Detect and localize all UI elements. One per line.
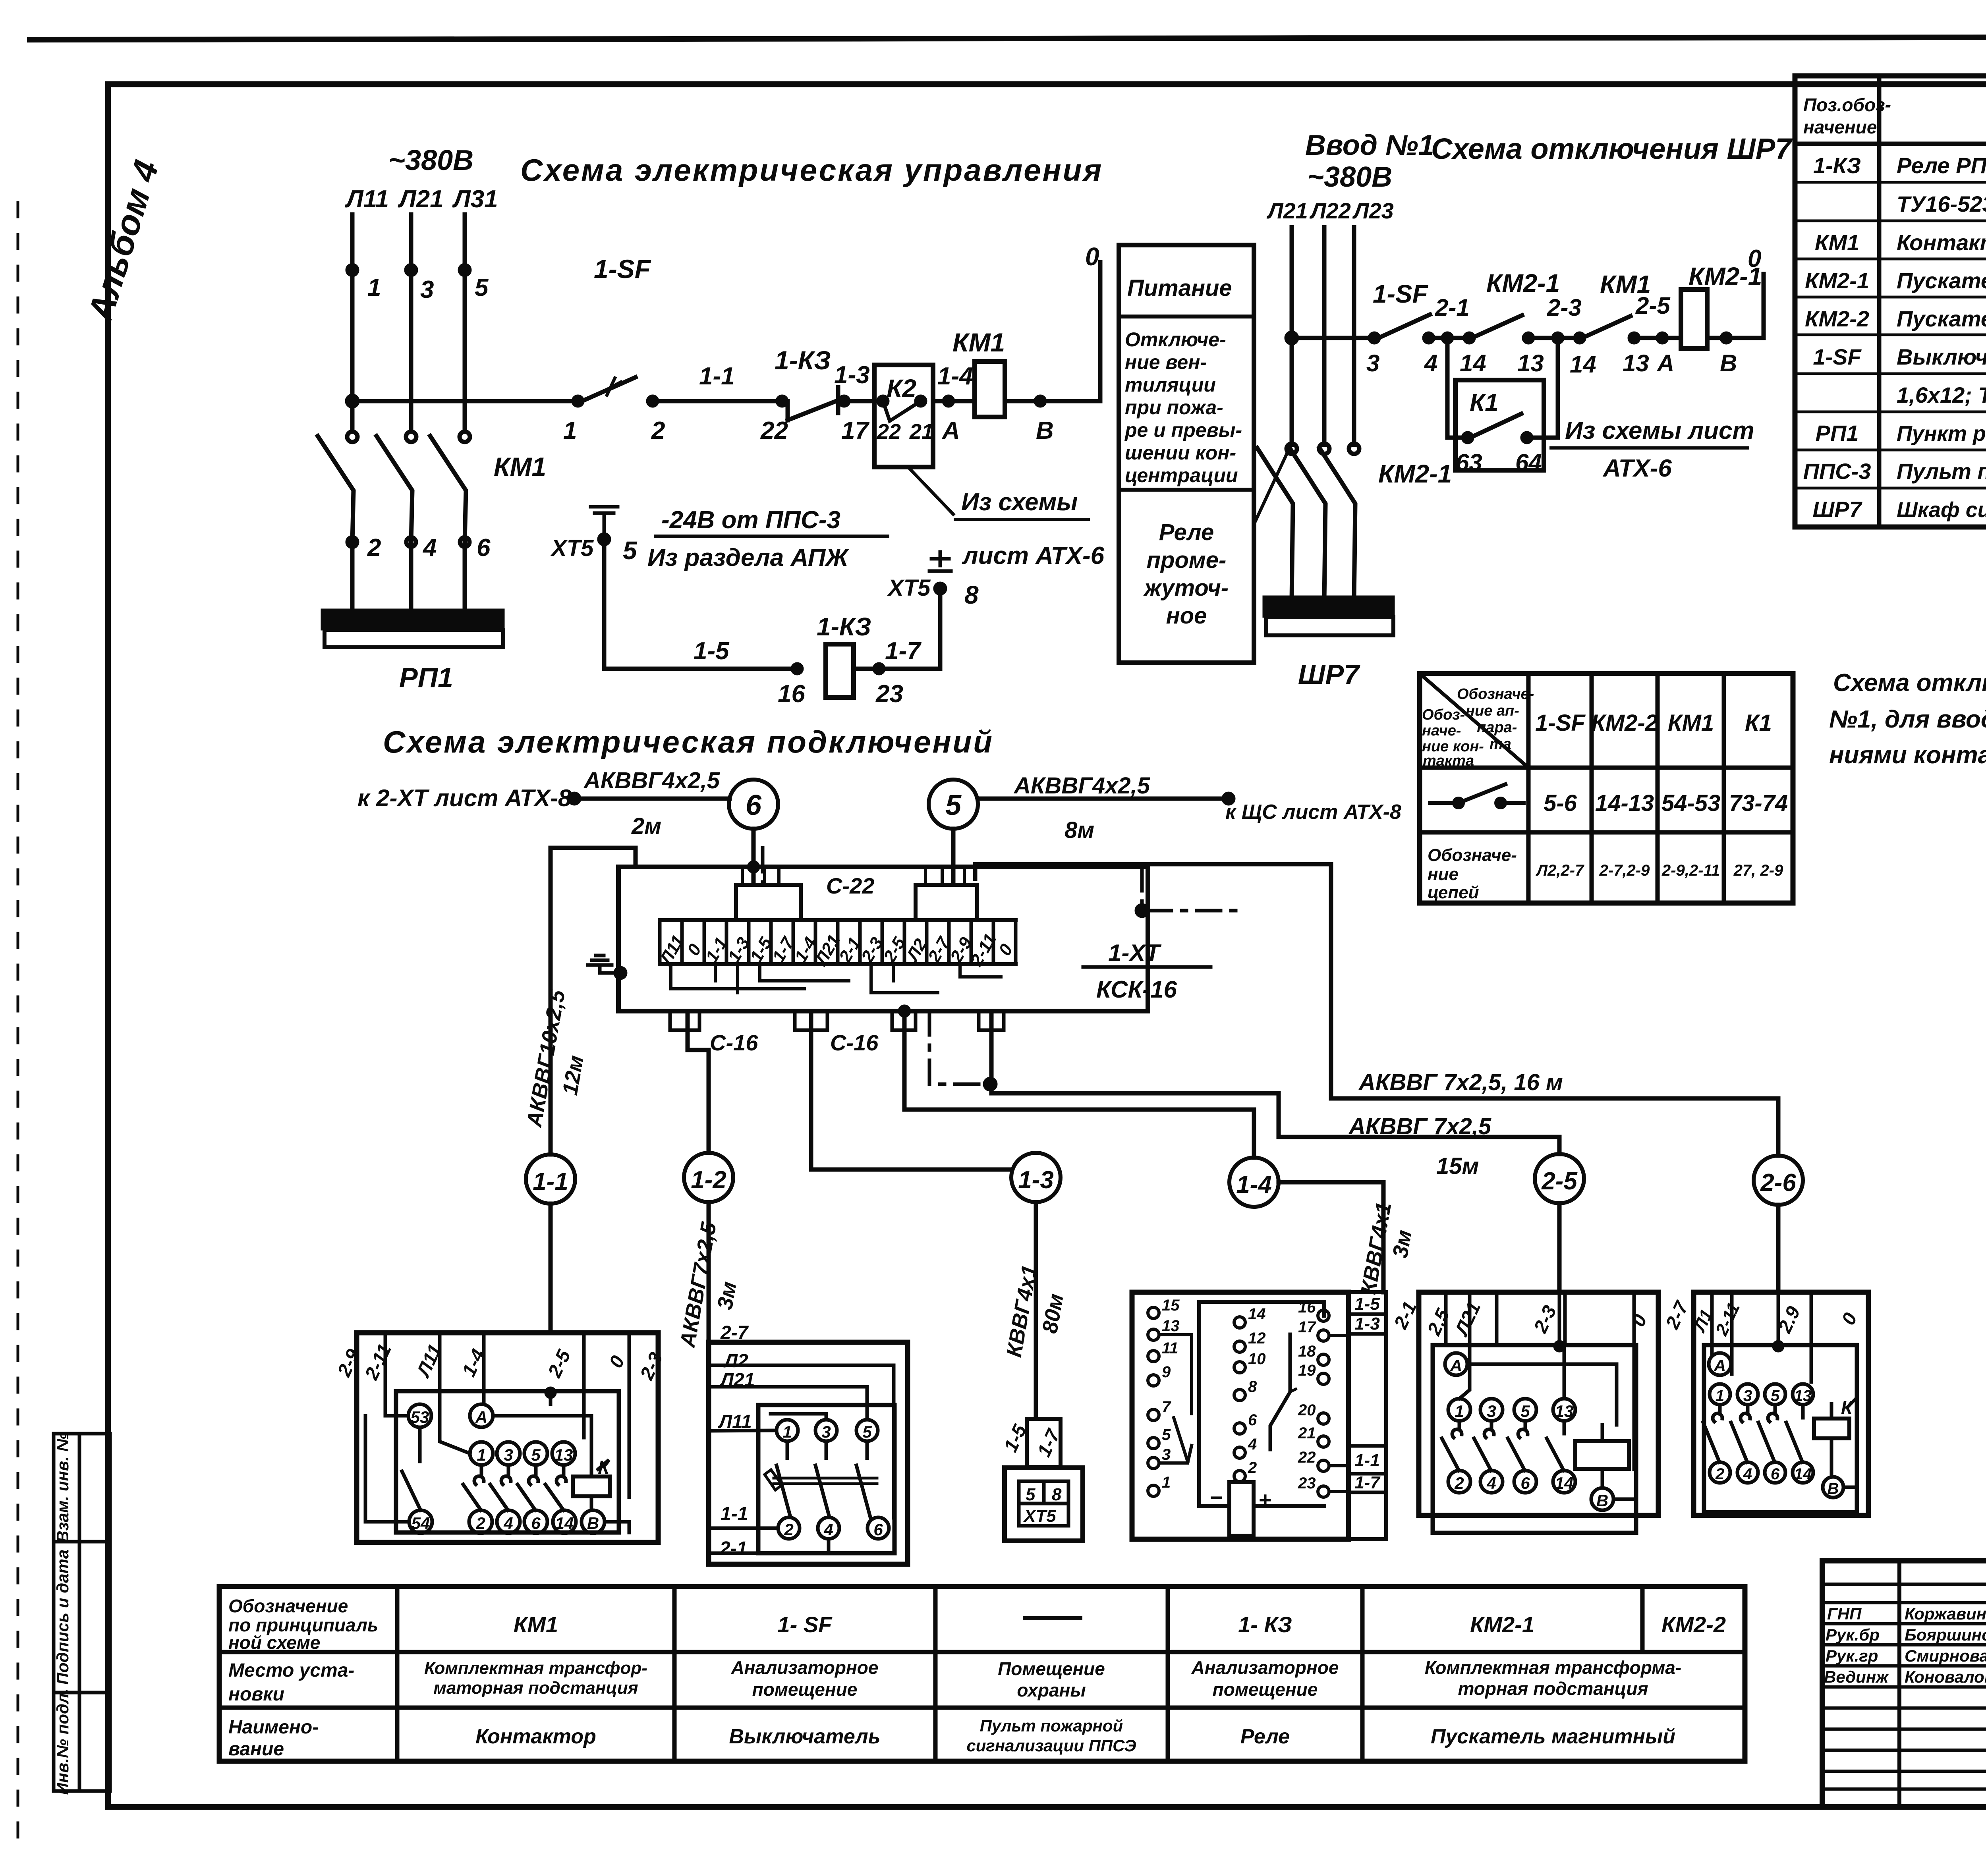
wire marker 2-6 to box — [1776, 1205, 1781, 1292]
1-SF box entry wires — [709, 1365, 894, 1553]
svg-text:КМ1: КМ1 — [1668, 710, 1714, 736]
svg-text:−: − — [1209, 1485, 1223, 1510]
node 3 — [406, 265, 434, 303]
svg-text:Пульт пожарной сигнализации: Пульт пожарной сигнализации — [1897, 459, 1986, 484]
svg-text:Ввод №1: Ввод №1 — [1305, 129, 1434, 161]
contact designation table — [1420, 674, 1793, 903]
svg-text:20: 20 — [1298, 1401, 1316, 1419]
contact table headers — [1535, 710, 1772, 736]
svg-text:2-9,2-11: 2-9,2-11 — [1661, 862, 1720, 879]
cable 15m to 2-5 — [991, 1011, 1559, 1179]
svg-text:2: 2 — [367, 534, 381, 562]
row KM2-1 — [1805, 268, 1986, 293]
svg-text:1-SF: 1-SF — [594, 254, 651, 284]
svg-text:А: А — [475, 1408, 487, 1426]
svg-text:КМ2-2: КМ2-2 — [1591, 710, 1658, 736]
title: Ввод N1 ~380В — [1305, 129, 1434, 193]
svg-text:17: 17 — [841, 417, 869, 444]
svg-text:Реле: Реле — [1159, 519, 1214, 545]
cable marker 6 — [729, 780, 778, 829]
terminal box XT5 — [1005, 1468, 1083, 1541]
wire phase L22 — [1322, 227, 1327, 445]
svg-text:5: 5 — [1026, 1485, 1036, 1504]
album label — [80, 156, 166, 326]
breaker 1-SF — [563, 254, 651, 444]
cable to box KM1 — [522, 848, 636, 1154]
node A2 — [1656, 334, 1674, 376]
svg-text:1-3: 1-3 — [1354, 1314, 1380, 1334]
svg-text:Л23: Л23 — [1352, 198, 1394, 223]
svg-text:6: 6 — [531, 1514, 541, 1532]
svg-text:Помещение: Помещение — [998, 1658, 1105, 1679]
row 1-SF cont — [1897, 382, 1986, 407]
leader from K2 — [910, 469, 1105, 569]
svg-text:Комплектная трансформа-: Комплектная трансформа- — [1425, 1657, 1681, 1678]
svg-text:5: 5 — [1162, 1426, 1171, 1444]
svg-text:64: 64 — [1515, 449, 1542, 476]
contactor KM1 poles — [318, 432, 546, 542]
svg-text:2-7: 2-7 — [720, 1322, 749, 1343]
svg-text:ГНП: ГНП — [1827, 1604, 1862, 1623]
svg-text:63: 63 — [1456, 449, 1482, 476]
svg-text:Из схемы лист: Из схемы лист — [1565, 417, 1754, 444]
magnetic starter KM2-1 box — [1390, 1292, 1693, 1533]
wire marker 2-5 to box — [1557, 1203, 1562, 1292]
sheet top edge line — [30, 37, 1986, 40]
equipment table row1 — [514, 1612, 1726, 1637]
wire phase L31 — [463, 214, 467, 431]
svg-text:торная подстанция: торная подстанция — [1458, 1678, 1648, 1699]
svg-text:Схема отключения ШР7 выполн: Схема отключения ШР7 выполнена для ввода — [1833, 669, 1986, 697]
svg-text:КМ2-1: КМ2-1 — [1378, 459, 1452, 488]
label 1-XT KCK-16 — [1083, 940, 1211, 1003]
svg-text:Обозначение: Обозначение — [228, 1596, 348, 1616]
svg-text:А: А — [1714, 1356, 1726, 1375]
svg-text:охраны: охраны — [1017, 1680, 1086, 1700]
contact KM1 aux — [1553, 270, 1681, 378]
svg-text:Питание: Питание — [1127, 275, 1232, 301]
terminal XT5 pin8 — [887, 552, 979, 609]
svg-text:КМ2-2: КМ2-2 — [1661, 1612, 1726, 1637]
svg-text:16: 16 — [1298, 1299, 1316, 1316]
svg-text:ной схеме: ной схеме — [228, 1632, 320, 1653]
svg-text:+: + — [1258, 1487, 1271, 1512]
svg-text:Шкаф силовой распределительный: Шкаф силовой распределительный — [1897, 498, 1986, 522]
wire marker 1-1 to box — [549, 1204, 553, 1333]
cable to 1-2 — [675, 1011, 741, 1350]
svg-text:12: 12 — [1248, 1330, 1266, 1347]
svg-text:начение: начение — [1803, 117, 1877, 137]
cable marker 2-5 — [1535, 1154, 1584, 1203]
label ~380V — [388, 145, 473, 176]
svg-text:КМ2-1: КМ2-1 — [1486, 269, 1560, 297]
svg-text:2м: 2м — [631, 813, 661, 839]
svg-text:3: 3 — [1162, 1446, 1171, 1463]
svg-text:В: В — [587, 1514, 599, 1532]
svg-text:23: 23 — [1298, 1475, 1316, 1492]
svg-text:Л2: Л2 — [723, 1351, 748, 1372]
KM2-1 terminals — [1445, 1353, 1613, 1510]
annunciator box Pitanie — [1119, 245, 1254, 663]
equipment location table — [219, 1586, 1745, 1761]
cable to 1-4 — [904, 1011, 1254, 1158]
wire phase L23 — [1352, 227, 1356, 445]
svg-text:13: 13 — [1623, 350, 1649, 376]
title: Схема электрическая подключений — [383, 724, 994, 759]
svg-text:16: 16 — [778, 680, 805, 708]
svg-text:1-1: 1-1 — [1354, 1451, 1380, 1470]
svg-text:КМ2-2: КМ2-2 — [1805, 306, 1869, 331]
svg-text:Реле РПГ-9-15111УЗ, -24В, 300М: Реле РПГ-9-15111УЗ, -24В, 300МА, — [1897, 153, 1986, 178]
label C-22 — [826, 873, 874, 898]
svg-text:1-SF: 1-SF — [1813, 344, 1862, 369]
svg-text:центрации: центрации — [1125, 464, 1238, 486]
svg-text:14: 14 — [1555, 1474, 1574, 1492]
svg-text:4: 4 — [422, 534, 437, 562]
svg-text:1-5: 1-5 — [1354, 1294, 1380, 1314]
svg-text:Пускатель магнитный: Пускатель магнитный — [1431, 1725, 1675, 1748]
svg-text:С-16: С-16 — [710, 1030, 758, 1055]
svg-text:2: 2 — [784, 1520, 793, 1539]
svg-text:Выключатель: Выключатель — [729, 1725, 880, 1748]
svg-text:4: 4 — [1248, 1436, 1257, 1453]
phase labels L11 L21 L31 — [345, 185, 498, 213]
svg-text:5: 5 — [531, 1446, 541, 1464]
svg-text:ниями контактов и цепей п: ниями контактов и цепей по таблице. — [1829, 741, 1986, 769]
svg-text:21: 21 — [1298, 1424, 1316, 1442]
svg-text:тиляции: тиляции — [1125, 374, 1216, 396]
svg-text:2: 2 — [1248, 1459, 1257, 1476]
svg-text:КМ1: КМ1 — [514, 1612, 558, 1637]
node 2 — [348, 534, 381, 611]
svg-text:8: 8 — [1052, 1485, 1062, 1504]
svg-text:вание: вание — [228, 1739, 284, 1760]
relay left pins — [1148, 1297, 1192, 1496]
svg-text:Из раздела АПЖ: Из раздела АПЖ — [647, 544, 850, 571]
svg-text:1-КЗ: 1-КЗ — [775, 345, 831, 375]
KM1 box internal wires — [365, 1388, 629, 1532]
wire 1-1 — [648, 363, 780, 444]
svg-text:к ЩС лист АТХ-8: к ЩС лист АТХ-8 — [1225, 801, 1401, 824]
svg-text:Поз.обоз-: Поз.обоз- — [1803, 95, 1891, 115]
svg-text:6: 6 — [477, 534, 491, 562]
coil KM2-1 — [1681, 262, 1762, 349]
svg-text:Рук.бр: Рук.бр — [1826, 1625, 1880, 1644]
svg-text:помещение: помещение — [1213, 1679, 1318, 1700]
row 1-K3 — [1813, 153, 1986, 178]
contact K1 branch — [1447, 338, 1558, 476]
cable to 1-3 — [811, 1011, 1011, 1170]
svg-text:лист АТХ-6: лист АТХ-6 — [962, 542, 1105, 569]
svg-text:Л21: Л21 — [398, 185, 444, 213]
leader to KM2-1 poles — [1254, 454, 1287, 524]
left dashed sheet edge — [17, 203, 19, 1851]
svg-text:1,6х12; ТУ16-522.139-78: 1,6х12; ТУ16-522.139-78 — [1897, 382, 1986, 407]
svg-text:КМ1: КМ1 — [1815, 230, 1859, 255]
svg-text:КМ2-1: КМ2-1 — [1470, 1612, 1534, 1637]
svg-text:1: 1 — [782, 1422, 792, 1441]
control tap wire — [1287, 333, 1374, 343]
components table frame — [1795, 76, 1986, 527]
svg-text:3: 3 — [1366, 350, 1379, 376]
wire from marker 6 — [752, 829, 756, 885]
svg-text:Анализаторное: Анализаторное — [731, 1657, 879, 1678]
cable marker 1-4 — [1229, 1158, 1279, 1207]
1-SF box terminals — [777, 1420, 889, 1539]
relay internal contact — [1270, 1334, 1296, 1449]
svg-text:3: 3 — [1487, 1402, 1496, 1421]
svg-text:Л22: Л22 — [1309, 198, 1351, 223]
svg-text:21: 21 — [909, 420, 933, 444]
svg-text:Контактор: Контактор — [1897, 230, 1986, 255]
svg-text:15м: 15м — [1436, 1153, 1479, 1179]
svg-text:ние ап-: ние ап- — [1466, 703, 1519, 719]
relay battery — [1209, 1482, 1271, 1536]
control wire from L11 to switch — [347, 396, 578, 406]
equipment table header col — [228, 1596, 378, 1760]
svg-text:54: 54 — [411, 1514, 430, 1532]
svg-text:18: 18 — [1298, 1343, 1316, 1360]
cable to ShchS — [978, 773, 1401, 843]
svg-text:8м: 8м — [1064, 817, 1094, 843]
svg-text:Л21: Л21 — [1266, 198, 1308, 223]
svg-text:23: 23 — [875, 680, 903, 708]
left border strip cells — [53, 1432, 110, 1795]
cable 16m to 2-6 — [975, 864, 1778, 1156]
svg-text:В: В — [1596, 1491, 1608, 1510]
svg-text:АКВВГ4х2,5: АКВВГ4х2,5 — [1013, 773, 1150, 799]
KM2-2 internal wires — [1712, 1292, 1857, 1487]
svg-text:КМ1: КМ1 — [494, 452, 546, 481]
row KM1 — [1815, 230, 1986, 255]
svg-text:Л31: Л31 — [452, 185, 498, 213]
svg-text:1-КЗ: 1-КЗ — [1813, 153, 1861, 178]
svg-text:пара-: пара- — [1477, 719, 1517, 736]
svg-text:К2: К2 — [887, 374, 916, 403]
svg-text:14: 14 — [1248, 1305, 1266, 1323]
relay right pins — [1298, 1299, 1348, 1497]
ground symbol — [591, 507, 618, 539]
svg-text:Отключе-: Отключе- — [1125, 328, 1226, 351]
svg-text:АКВВГ 7х2,5: АКВВГ 7х2,5 — [1348, 1114, 1491, 1139]
svg-text:РП1: РП1 — [399, 662, 453, 693]
svg-text:1-5: 1-5 — [694, 637, 730, 665]
breaker 1-SF2 — [1366, 280, 1430, 376]
svg-text:Схема электрическая управлен: Схема электрическая управления — [520, 152, 1103, 187]
svg-text:2-5: 2-5 — [1541, 1168, 1578, 1195]
svg-text:Схема электрическая подключе: Схема электрическая подключений — [383, 724, 994, 759]
svg-text:3: 3 — [1743, 1387, 1752, 1405]
svg-text:3м: 3м — [1388, 1228, 1416, 1260]
wire marker 1-3 down — [1002, 1202, 1068, 1419]
svg-text:2-6: 2-6 — [1760, 1169, 1796, 1197]
svg-text:6: 6 — [1520, 1474, 1530, 1492]
wire 1-5 — [604, 539, 805, 708]
svg-text:13: 13 — [1555, 1402, 1574, 1421]
svg-text:К1: К1 — [1745, 710, 1772, 736]
svg-text:Взам. инв. №: Взам. инв. № — [53, 1432, 72, 1542]
svg-text:-24В от ППС-3: -24В от ППС-3 — [661, 506, 840, 534]
contact pairs row — [1544, 790, 1788, 816]
svg-text:ШР7: ШР7 — [1812, 497, 1862, 522]
wire to node O2 — [1707, 245, 1764, 376]
svg-text:1-2: 1-2 — [691, 1166, 726, 1194]
svg-text:такта: такта — [1423, 753, 1474, 769]
svg-text:53: 53 — [411, 1408, 429, 1426]
breaker 1-SF terminal box — [709, 1322, 908, 1564]
svg-text:Пускатель магнитный: Пускатель магнитный — [1897, 268, 1986, 293]
svg-text:5: 5 — [862, 1422, 872, 1441]
svg-text:АКВВГ4х2,5: АКВВГ4х2,5 — [583, 768, 720, 793]
svg-text:В: В — [1720, 350, 1737, 376]
cable marker 2-6 — [1754, 1156, 1803, 1205]
svg-text:2: 2 — [475, 1514, 485, 1532]
svg-text:1-ХТ: 1-ХТ — [1108, 940, 1161, 966]
svg-text:14: 14 — [555, 1514, 574, 1532]
svg-text:Анализаторное: Анализаторное — [1191, 1657, 1339, 1678]
row PPS-3 — [1803, 459, 1986, 484]
KM2-1 internal wires — [1459, 1292, 1634, 1499]
svg-text:2-7,2-9: 2-7,2-9 — [1599, 862, 1650, 879]
svg-text:17: 17 — [1298, 1318, 1316, 1336]
bus RP1 — [323, 611, 503, 693]
internal jumper wires — [671, 964, 1001, 993]
svg-text:1-4: 1-4 — [937, 363, 973, 390]
screen junction dots — [749, 863, 1147, 1089]
magnetic starter KM2-2 box — [1689, 1292, 1868, 1515]
svg-text:ХТ5: ХТ5 — [887, 575, 931, 601]
svg-text:при пожа-: при пожа- — [1125, 396, 1223, 419]
svg-text:~380В: ~380В — [388, 145, 473, 176]
svg-text:1-КЗ: 1-КЗ — [817, 612, 871, 641]
svg-text:22: 22 — [1298, 1449, 1316, 1466]
circuits row header — [1428, 845, 1517, 902]
svg-text:13: 13 — [1517, 350, 1544, 376]
svg-text:к 2-ХТ лист АТХ-8: к 2-ХТ лист АТХ-8 — [357, 785, 572, 811]
svg-text:13: 13 — [1794, 1387, 1812, 1405]
contactor KM2-1 poles — [1257, 444, 1452, 600]
svg-text:14: 14 — [1570, 351, 1596, 378]
svg-text:ХТ5: ХТ5 — [550, 535, 594, 561]
svg-text:проме-: проме- — [1147, 547, 1227, 573]
svg-text:РП1: РП1 — [1816, 421, 1859, 446]
svg-text:27, 2-9: 27, 2-9 — [1733, 862, 1783, 879]
connector C-22 left — [736, 867, 801, 920]
connector C-22 right — [916, 867, 977, 920]
svg-text:Обозначе-: Обозначе- — [1428, 845, 1517, 865]
svg-text:4: 4 — [1424, 350, 1437, 376]
svg-text:5: 5 — [945, 789, 962, 821]
svg-text:1-4: 1-4 — [1236, 1171, 1272, 1199]
svg-text:1- SF: 1- SF — [778, 1612, 833, 1637]
circuits row values — [1536, 862, 1783, 879]
svg-text:Пульт пожарной: Пульт пожарной — [980, 1716, 1123, 1735]
svg-text:2: 2 — [651, 417, 665, 444]
svg-text:6: 6 — [1248, 1411, 1257, 1429]
svg-text:Наимено-: Наимено- — [228, 1717, 319, 1738]
svg-text:22: 22 — [760, 417, 788, 444]
svg-text:Смирнова: Смирнова — [1905, 1646, 1986, 1665]
wire to node O — [1005, 242, 1100, 444]
svg-text:1-3: 1-3 — [1018, 1166, 1054, 1194]
svg-text:1-1: 1-1 — [533, 1168, 568, 1195]
svg-text:5-6: 5-6 — [1544, 790, 1577, 816]
signature table — [1822, 1561, 1986, 1807]
net label -24V — [647, 506, 888, 571]
svg-text:Контактор: Контактор — [475, 1725, 596, 1748]
svg-text:2-1: 2-1 — [1435, 294, 1470, 321]
equipment table row2 — [424, 1657, 1681, 1700]
contact 1-K3 — [760, 345, 874, 444]
svg-text:ШР7: ШР7 — [1298, 659, 1360, 690]
cable marker 1-3 — [1011, 1153, 1061, 1202]
svg-text:22: 22 — [877, 420, 901, 444]
node 1 — [348, 265, 381, 301]
svg-text:4: 4 — [823, 1520, 833, 1539]
svg-text:11: 11 — [1162, 1339, 1178, 1357]
cable marker 1-1 — [526, 1154, 575, 1204]
svg-text:8: 8 — [1248, 1378, 1257, 1395]
svg-text:1-7: 1-7 — [885, 637, 922, 665]
svg-text:Бояршинов: Бояршинов — [1905, 1625, 1986, 1644]
screen dash-dot links — [763, 848, 1239, 1084]
terminal XT5 tag — [1000, 1419, 1064, 1467]
svg-text:Из схемы: Из схемы — [961, 488, 1078, 516]
svg-text:9: 9 — [1162, 1363, 1171, 1381]
KM1 box contacts — [402, 1427, 566, 1510]
svg-text:2: 2 — [1715, 1465, 1724, 1483]
svg-text:Место уста-: Место уста- — [228, 1660, 354, 1681]
svg-text:1-SF: 1-SF — [1535, 710, 1586, 736]
svg-text:2-3: 2-3 — [1547, 294, 1582, 321]
svg-text:1-3: 1-3 — [834, 361, 870, 389]
svg-text:Реле: Реле — [1240, 1725, 1290, 1748]
cable to 2-XT — [570, 768, 730, 839]
relay box K2 — [874, 365, 933, 467]
title: Схема электрическая управления — [520, 152, 1103, 187]
svg-text:13: 13 — [1162, 1317, 1180, 1335]
svg-text:14: 14 — [1794, 1465, 1812, 1483]
row ShR7 — [1812, 497, 1986, 522]
svg-text:2-1: 2-1 — [719, 1538, 747, 1559]
svg-text:1: 1 — [563, 417, 577, 444]
relay 1-K3 terminal box — [1132, 1292, 1348, 1539]
svg-text:1-7: 1-7 — [1354, 1473, 1381, 1492]
relay mid pins — [1234, 1305, 1266, 1482]
svg-text:19: 19 — [1298, 1362, 1316, 1379]
svg-text:ХТ5: ХТ5 — [1023, 1506, 1056, 1526]
svg-text:Схема отключения ШР7: Схема отключения ШР7 — [1431, 132, 1793, 165]
row RP1 — [1816, 421, 1986, 446]
svg-text:6: 6 — [1771, 1465, 1780, 1483]
svg-text:Выключатель АП50Б-2МУ2, ~220В;: Выключатель АП50Б-2МУ2, ~220В; — [1897, 344, 1986, 369]
node 4 — [1424, 294, 1470, 376]
svg-text:Вединж: Вединж — [1824, 1668, 1889, 1686]
svg-text:15: 15 — [1162, 1297, 1180, 1314]
wire marker 1-4 to relay — [1279, 1182, 1416, 1296]
svg-text:~380В: ~380В — [1307, 161, 1392, 193]
svg-text:Коржавина: Коржавина — [1905, 1604, 1986, 1623]
svg-text:Л2,2-7: Л2,2-7 — [1536, 862, 1584, 879]
svg-text:С-16: С-16 — [830, 1030, 879, 1055]
svg-text:Инв.№ подл.: Инв.№ подл. — [53, 1689, 72, 1795]
svg-text:5: 5 — [475, 274, 489, 301]
wire from marker 5 — [951, 829, 956, 885]
svg-text:1-1: 1-1 — [699, 363, 735, 390]
contactor KM1 terminal box — [334, 1333, 667, 1542]
svg-text:1: 1 — [367, 274, 381, 301]
svg-text:7: 7 — [1162, 1398, 1171, 1416]
